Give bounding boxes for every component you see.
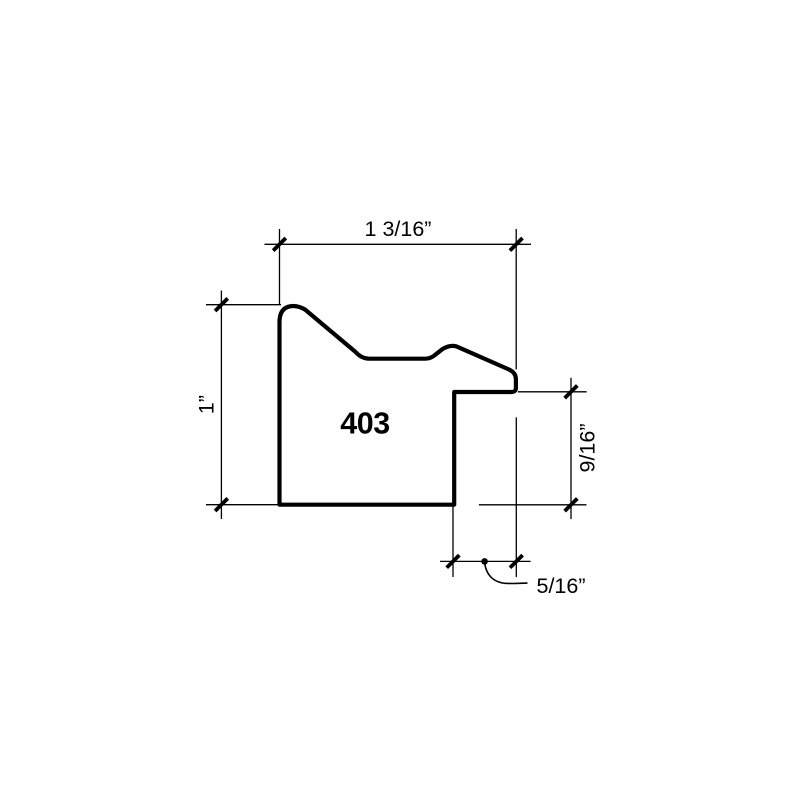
dimension 1 inch : dimension line (220, 291, 222, 520)
svg-text:9/16”: 9/16” (576, 423, 600, 472)
dimension 9/16 inch : label (576, 423, 600, 472)
dimension 5/16 inch : tick left (447, 555, 460, 568)
dimension 5/16 inch : tick right (510, 555, 523, 568)
svg-text:1”: 1” (195, 395, 219, 414)
svg-text:1 3/16”: 1 3/16” (365, 217, 432, 241)
dimension 5/16 inch : label (537, 574, 586, 598)
dimension 9/16 inch : tick top (565, 386, 578, 399)
dimension 1 inch : extension line top (y=304.7) (206, 304, 281, 306)
dimension 1 3/16 inch : dimension line (265, 243, 532, 245)
dimension 9/16 inch : tick bottom (565, 499, 578, 512)
dimension 1 3/16 inch : tick right (510, 238, 523, 251)
dimension 1 3/16 inch : label (365, 217, 432, 241)
dimension 1 inch : tick bottom (215, 498, 228, 511)
profile number label 403 (340, 407, 389, 441)
dimension 1 inch : label (195, 395, 219, 414)
dimension 5/16 inch : leader dot (481, 558, 488, 565)
dimension 1 inch : tick top (215, 298, 228, 311)
dimension 5/16 inch : dimension line (440, 560, 531, 562)
dimension 1 3/16 inch : tick left (273, 238, 286, 251)
dimension 9/16 inch : dimension line (570, 378, 572, 519)
dimension 9/16 inch : extension line top (y=391.8) (518, 391, 587, 393)
svg-text:5/16”: 5/16” (537, 574, 586, 598)
dimension 5/16 inch : extension line right (x=516.3) (515, 417, 517, 577)
dimension 1 3/16 inch : extension line left (x=279.5) (279, 229, 281, 305)
moulding profile outline 403 (280, 306, 516, 505)
dimension 1 inch : extension line bottom (y=504.7) (206, 504, 281, 506)
svg-text:403: 403 (340, 407, 389, 441)
dimension 5/16 inch : extension line left (x=453) (452, 507, 454, 578)
dimension 5/16 inch : leader curve (485, 563, 528, 584)
dimension 1 3/16 inch : extension line right (x=516.2, runs to profile corner) (515, 229, 517, 370)
dimension 9/16 inch : extension line bottom (y=504.8) (479, 504, 587, 506)
